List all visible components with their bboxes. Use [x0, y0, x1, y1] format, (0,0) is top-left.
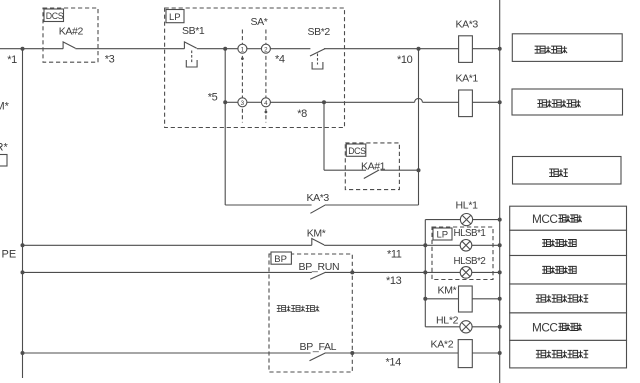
- svg-text:KA#1: KA#1: [361, 161, 386, 173]
- wire KA*3 rung left: [225, 204, 311, 206]
- wire SA4 to KA*1 coil with hop: [270, 101, 414, 103]
- coil KA*2: [458, 340, 472, 368]
- junction *11/XD vertical: [423, 243, 427, 247]
- svg-text:*4: *4: [275, 54, 285, 66]
- DCS enclosure box 1: [43, 8, 98, 62]
- svg-text:1: 1: [241, 47, 245, 54]
- svg-text:SB*1: SB*1: [182, 25, 205, 37]
- DCS enclosure box 2: [345, 143, 399, 190]
- contact KA#2: [63, 42, 75, 49]
- selector position dot below contact 1: [241, 57, 244, 60]
- svg-text:2: 2: [264, 47, 268, 54]
- junction rung2/right-bus: [498, 100, 502, 104]
- wire HL*2 branch: [425, 326, 499, 328]
- SB*1 actuator: [191, 51, 193, 63]
- svg-text:HL*1: HL*1: [456, 200, 479, 212]
- svg-text:*13: *13: [386, 275, 402, 287]
- coil KA*3: [459, 36, 473, 63]
- junction KA#1/XC vertical: [417, 168, 421, 172]
- svg-text:HLSB*2: HLSB*2: [454, 256, 486, 267]
- DCS tag box 2: [346, 144, 366, 156]
- wire *14 rung left: [23, 352, 311, 354]
- wire right bus vertical: [499, 0, 501, 383]
- svg-text:*8: *8: [297, 108, 307, 120]
- selector contact 4: [261, 98, 270, 107]
- legend box MCC stop indicator: [510, 206, 627, 230]
- wire KA*3 coil to bus: [472, 48, 499, 50]
- LP tag box 2: [433, 228, 452, 240]
- contact KA*3: [310, 205, 325, 214]
- contact SB*1 pushbutton NO: [184, 42, 196, 49]
- junction rung1/right-bus: [498, 47, 502, 51]
- junction BP box edge on *13: [350, 270, 354, 274]
- svg-text:BP: BP: [274, 254, 287, 265]
- wire KA*1 coil to bus: [472, 101, 499, 103]
- lamp HL*2: [460, 321, 472, 333]
- svg-text:SB*2: SB*2: [308, 26, 331, 38]
- svg-text:4: 4: [264, 100, 268, 107]
- DCS tag box 1: [44, 9, 64, 22]
- wire PE rung left: [23, 244, 312, 246]
- partial terminal box at edge: [0, 155, 7, 167]
- svg-text:LP: LP: [169, 12, 181, 23]
- legend box field run indicator: [510, 256, 627, 285]
- svg-text:*10: *10: [397, 54, 413, 66]
- selector SA* dashed shaft left: [241, 30, 243, 123]
- svg-text:SA*: SA*: [251, 16, 268, 28]
- junction *13/left-bus: [21, 270, 25, 274]
- wire SA3-SA4 bridge: [247, 101, 262, 103]
- junction HL*2/right-bus: [498, 325, 502, 329]
- selector contact 2: [261, 44, 270, 53]
- wire HL*1 branch: [425, 219, 499, 221]
- selector SA* dashed shaft right: [265, 30, 267, 123]
- junction *13/XD vertical: [423, 270, 427, 274]
- selector contact 3: [238, 98, 247, 107]
- lamp branch vertical: [424, 220, 426, 327]
- wire SB*2 to KA*3 coil: [324, 48, 459, 50]
- BP tag box: [271, 252, 291, 264]
- svg-text:MCC: MCC: [532, 212, 558, 226]
- wire left bus vertical: [22, 49, 24, 378]
- junction *14/left-bus: [21, 351, 25, 355]
- svg-text:BP_FAL: BP_FAL: [300, 341, 337, 353]
- wire KM coil branch: [425, 298, 499, 300]
- lamp HLSB*1: [460, 240, 472, 252]
- BP enclosure box: [269, 254, 352, 372]
- junction KM-coil/right-bus: [498, 297, 502, 301]
- legend box field stop indicator: [510, 230, 627, 255]
- contact BP_RUN: [310, 272, 325, 279]
- wire KM* to HLSB*1: [324, 244, 500, 246]
- BP internal note: [277, 306, 319, 312]
- contact BP_FAL: [310, 353, 326, 361]
- svg-text:*1: *1: [7, 54, 17, 66]
- wire SA2 to SB*2: [270, 48, 310, 50]
- legend box remote signal relay: [512, 89, 623, 115]
- wire KA*3 rung right: [326, 204, 419, 206]
- svg-text:R*: R*: [0, 142, 8, 154]
- wire seal-in vertical: [224, 49, 226, 205]
- junction *14/right-bus: [498, 351, 502, 355]
- selector contact 1: [238, 44, 247, 53]
- LP enclosure box 1: [165, 8, 345, 128]
- svg-text:3: 3: [241, 100, 245, 107]
- junction rung1/left-bus: [21, 47, 25, 51]
- wire KA#1 right: [381, 169, 419, 171]
- junction BP box edge on *14: [350, 351, 354, 355]
- svg-text:KM*: KM*: [307, 227, 326, 239]
- wire BP_FAL right: [325, 352, 500, 354]
- selector position dot below contact 4: [265, 111, 268, 114]
- svg-text:HLSB*1: HLSB*1: [454, 228, 486, 239]
- junction seal-in top: [223, 47, 227, 51]
- svg-text:BP_RUN: BP_RUN: [299, 261, 340, 273]
- LP tag box 1: [166, 10, 184, 23]
- junction PE/left-bus: [21, 243, 25, 247]
- legend box VFD fault relay: [510, 340, 627, 368]
- svg-text:KM*: KM*: [438, 285, 457, 297]
- coil KM*: [459, 286, 473, 312]
- junction KM-coil/XD vertical: [423, 297, 427, 301]
- svg-text:*14: *14: [386, 356, 402, 368]
- svg-text:DCS: DCS: [46, 11, 64, 21]
- lamp HLSB*2: [460, 267, 472, 279]
- contact SB*2 pushbutton NC: [310, 49, 325, 57]
- junction HL*1/right-bus: [498, 218, 502, 222]
- legend box remote start: [513, 157, 622, 185]
- svg-text:*11: *11: [387, 249, 402, 261]
- wire KA#2 to SB*1: [75, 48, 184, 50]
- svg-text:*3: *3: [105, 54, 115, 66]
- lamp HL*1: [460, 214, 472, 226]
- contact KM*: [312, 239, 324, 246]
- SB*2 actuator: [317, 54, 319, 65]
- svg-text:MCC: MCC: [532, 320, 558, 334]
- junction *13/right-bus: [498, 270, 502, 274]
- svg-text:KA#2: KA#2: [59, 26, 84, 38]
- svg-text:KA*1: KA*1: [456, 73, 479, 85]
- junction rung2/XB vertical: [322, 100, 326, 104]
- svg-text:KA*3: KA*3: [456, 19, 479, 31]
- svg-text:KA*3: KA*3: [307, 192, 330, 204]
- svg-text:PE: PE: [2, 249, 17, 261]
- svg-text:*5: *5: [208, 91, 218, 103]
- wire SA3 left: [225, 101, 238, 103]
- wire SA1-SA2 bridge: [247, 48, 262, 50]
- wire XB vertical: [323, 102, 325, 170]
- junction seal-in/rung2: [223, 100, 227, 104]
- wire SB*1 to SA contact 1: [197, 48, 238, 50]
- wire *13 rung left: [23, 271, 312, 273]
- legend box local manual control: [512, 34, 622, 62]
- coil KA*1: [459, 90, 473, 117]
- legend box VFD run relay: [510, 284, 627, 313]
- wire BP_RUN right: [325, 271, 500, 273]
- LP enclosure box 2: [432, 227, 493, 280]
- svg-text:DCS: DCS: [348, 146, 366, 156]
- contact KA#1: [364, 170, 379, 179]
- svg-text:HL*2: HL*2: [436, 315, 459, 327]
- svg-text:M*: M*: [0, 101, 10, 113]
- wire XC vertical: [418, 49, 420, 205]
- svg-text:LP: LP: [437, 230, 449, 241]
- junction rung1/XC vertical: [417, 47, 421, 51]
- legend box MCC run indicator: [510, 313, 627, 341]
- wire KA#1 left: [324, 169, 366, 171]
- wire rung1 entry: [0, 48, 63, 50]
- svg-text:KA*2: KA*2: [431, 339, 454, 351]
- junction *11/right-bus: [498, 243, 502, 247]
